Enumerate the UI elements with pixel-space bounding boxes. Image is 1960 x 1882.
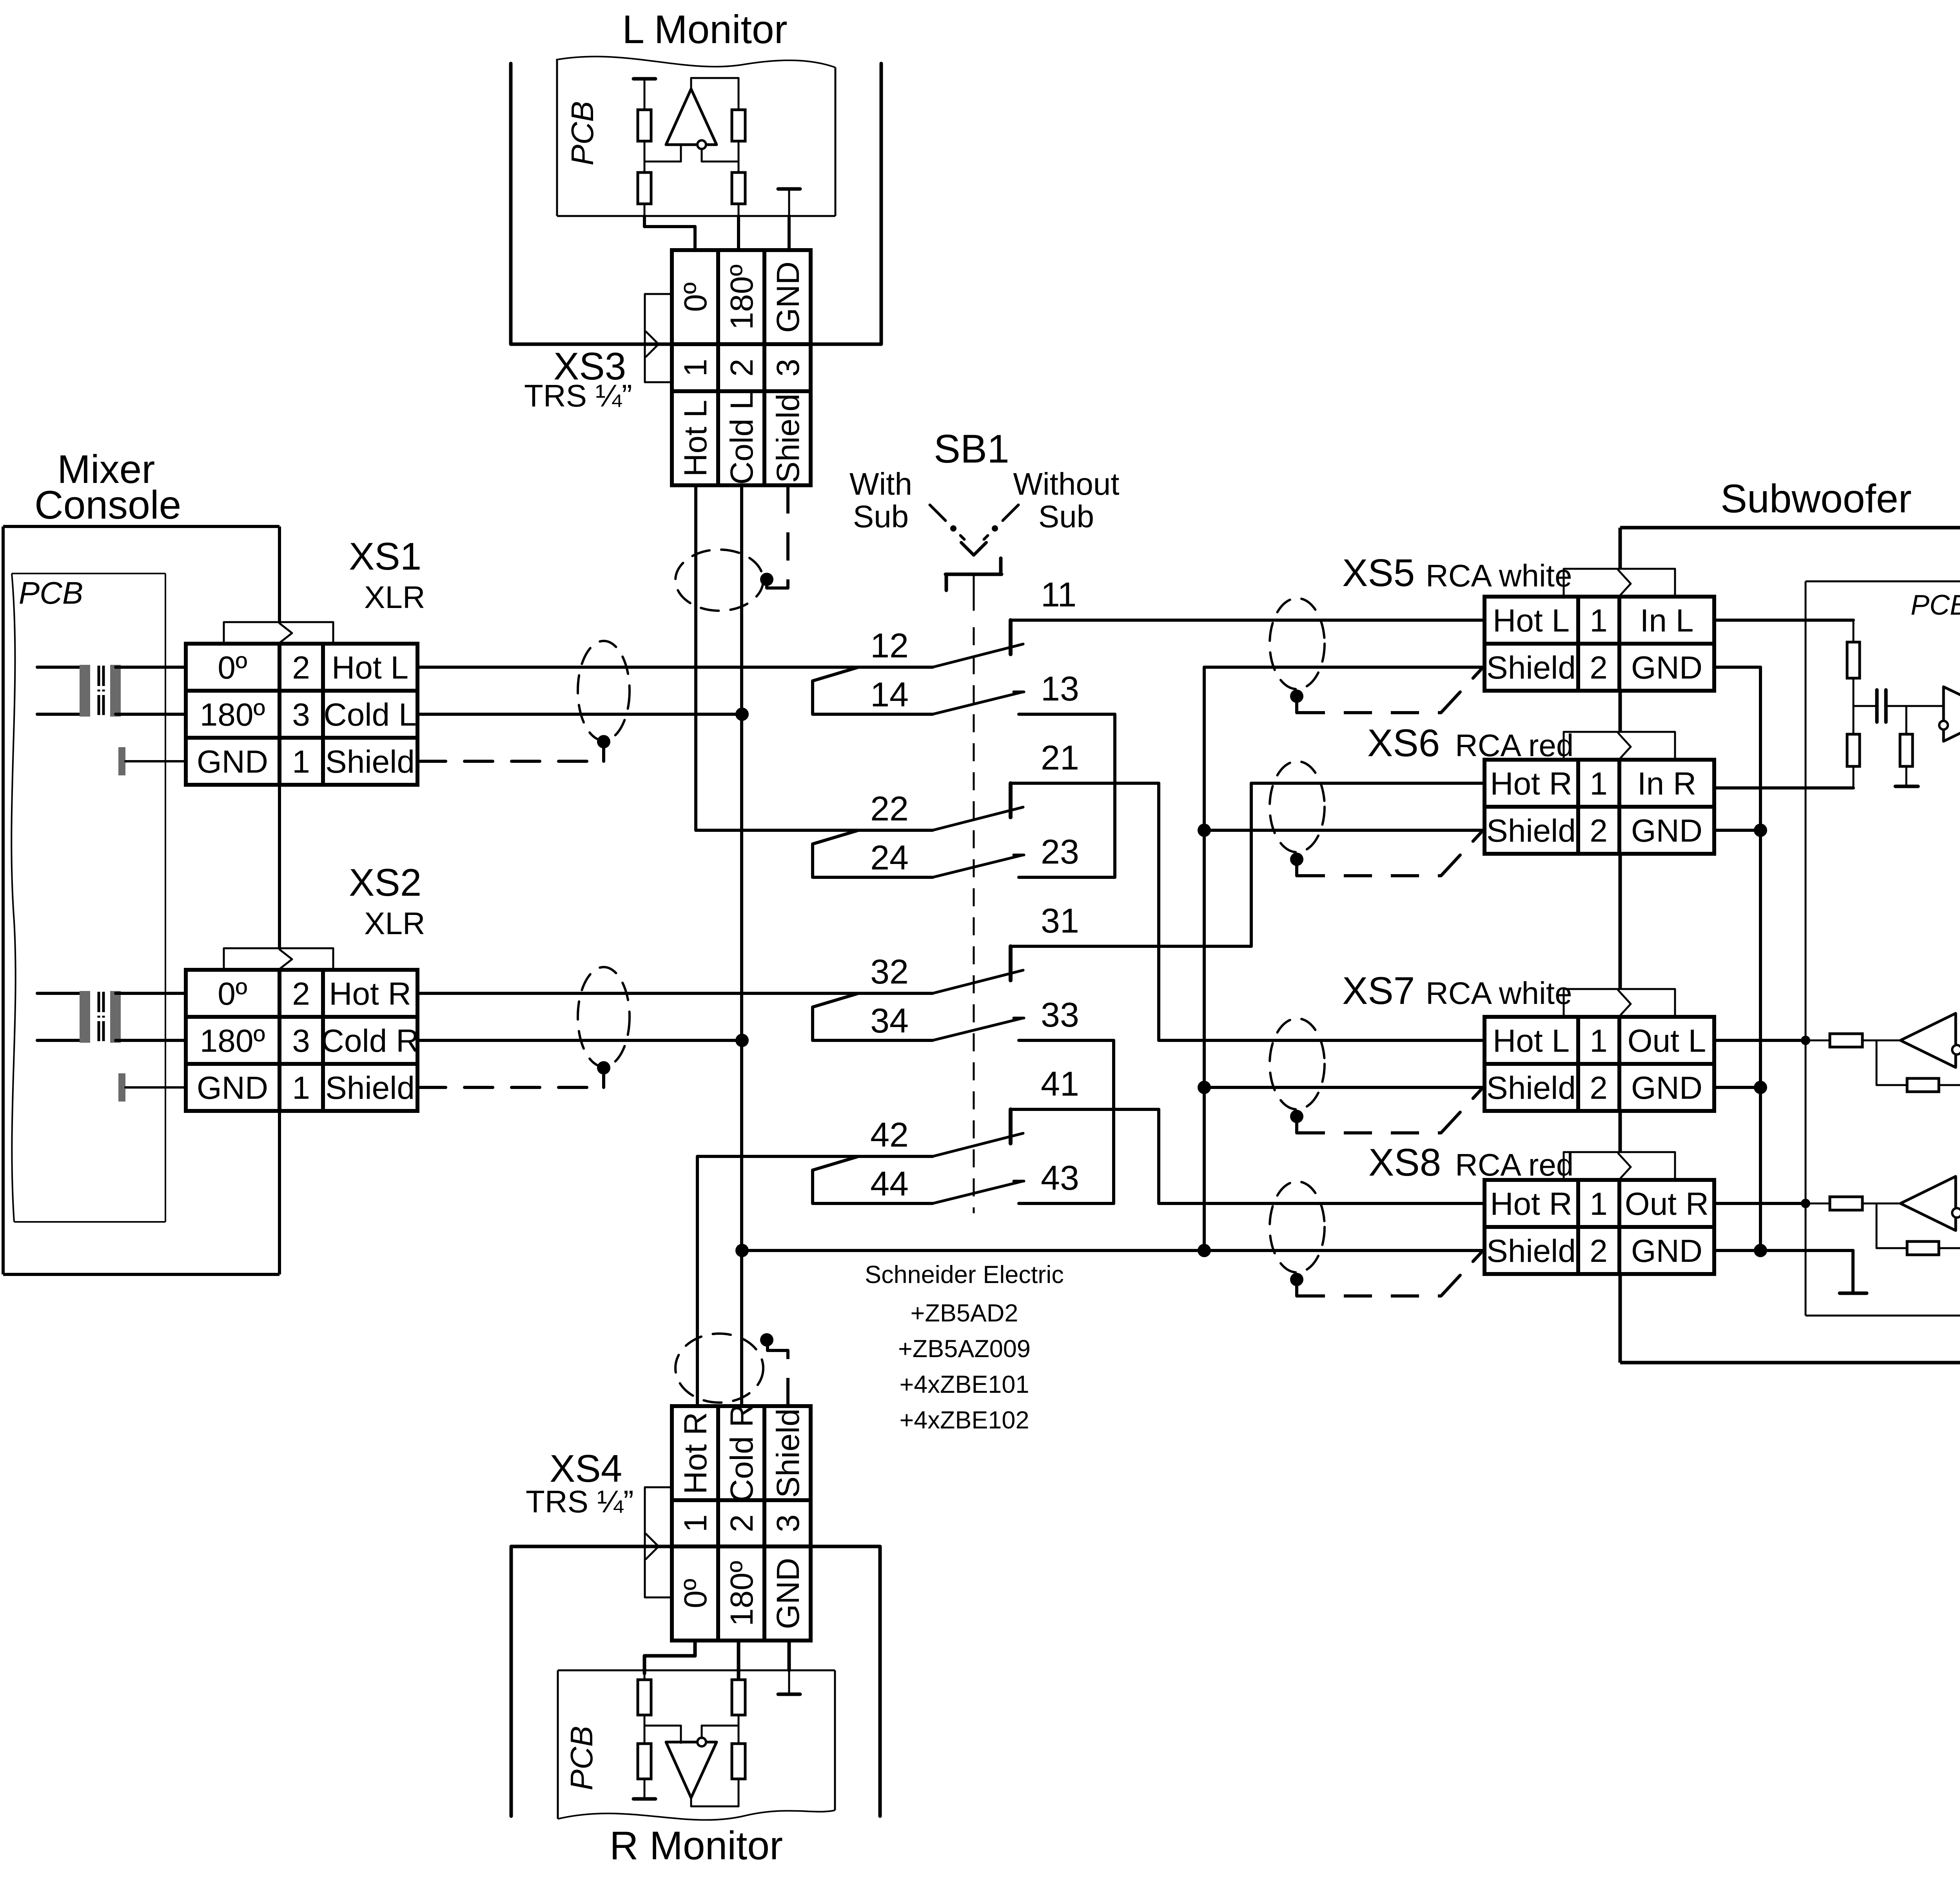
cable shield ellipse XS7 pair (1270, 1018, 1325, 1109)
switch SB1 mechanical linkage dashed (973, 627, 975, 1213)
junction GND bus XS6 (1754, 824, 1767, 837)
wire XS3 hot L down to contact 22 (694, 485, 697, 830)
svg-text:TRS ¼”: TRS ¼” (526, 1484, 634, 1519)
wire GND bus vertical x4491 (1759, 667, 1762, 1250)
svg-text:Hot L: Hot L (1493, 1023, 1570, 1059)
contact 13-14 NO blade (933, 692, 1023, 714)
svg-text:33: 33 (1041, 995, 1079, 1034)
svg-text:1: 1 (678, 359, 713, 377)
svg-text:PCB: PCB (1911, 590, 1960, 621)
svg-text:14: 14 (870, 675, 909, 714)
cable bracket XS4 (644, 1487, 646, 1597)
ground symbol sub input (1895, 785, 1918, 788)
svg-text:13: 13 (1041, 669, 1079, 708)
node L monitor input tap (644, 161, 681, 163)
connector XS2 body (186, 970, 417, 1111)
wire contact 21 to XS7 hot L (1011, 782, 1159, 785)
svg-text:2: 2 (1590, 650, 1608, 686)
wire contact 11 to XS5 hot L (1011, 619, 1483, 622)
dashed shield XS2 (417, 1086, 604, 1089)
resistor R-R2 (644, 1744, 646, 1797)
junction cold bus / XS2 cold (735, 1034, 749, 1047)
wire XS5 shield (1204, 666, 1485, 669)
wire In L (1714, 619, 1853, 622)
junction PCB gnd / Out L (1801, 1036, 1810, 1045)
svg-text:Shield: Shield (770, 394, 806, 483)
contact 31 fixed terminal (1009, 946, 1013, 980)
wire XS3 pin connections to PCB (643, 216, 646, 227)
svg-text:XLR: XLR (364, 580, 425, 615)
resistor R-L1 (644, 110, 646, 172)
contact 23-24 NO blade (933, 855, 1023, 877)
cable bracket XS2 (224, 947, 333, 949)
PCB outline L monitor (557, 215, 835, 217)
ground stub R monitor GND pin (778, 1693, 800, 1696)
svg-text:Cold R: Cold R (724, 1404, 760, 1503)
switch SB1 actuator arrow (961, 543, 986, 555)
svg-text:XS5: XS5 (1342, 551, 1415, 594)
svg-text:3: 3 (292, 697, 310, 733)
svg-text:Shield: Shield (325, 744, 415, 780)
svg-text:1: 1 (1590, 1023, 1608, 1059)
svg-text:Shield: Shield (1486, 1070, 1576, 1106)
svg-text:180º: 180º (200, 697, 265, 733)
PCB outline mixer console (12, 573, 165, 574)
svg-text:In L: In L (1640, 603, 1694, 639)
connector XS8 body (1485, 1180, 1714, 1274)
svg-text:Out R: Out R (1625, 1186, 1709, 1222)
cable bracket XS7 (1564, 988, 1675, 990)
resistor R-outL series (1830, 1034, 1862, 1047)
junction shield drain XS6 (1290, 853, 1303, 866)
cable bracket XS3 (644, 294, 646, 382)
svg-text:1: 1 (1590, 766, 1608, 802)
op-amp U-out-L (1900, 1013, 1956, 1067)
svg-text:0º: 0º (218, 650, 247, 686)
svg-text:Console: Console (34, 483, 181, 527)
cable bracket XS6 (1564, 731, 1675, 733)
cable shield ellipse XS2 pair (578, 967, 630, 1067)
svg-text:GND: GND (1631, 1233, 1702, 1269)
svg-text:RCA red: RCA red (1455, 728, 1573, 763)
svg-text:GND: GND (197, 1070, 268, 1106)
svg-text:2: 2 (724, 1514, 760, 1532)
svg-text:22: 22 (870, 789, 909, 828)
svg-text:XLR: XLR (364, 906, 425, 941)
resistor R-R4 (738, 1680, 740, 1715)
svg-text:Hot L: Hot L (332, 650, 408, 686)
contact block 3 input fork (813, 993, 933, 1040)
svg-text:Sub: Sub (853, 499, 909, 534)
summing chain vertical (1853, 620, 1855, 788)
dashed shield XS1 (417, 760, 604, 763)
transformer T2 (XS2 channel) primary stubs (37, 992, 85, 995)
junction shield drain XS3 (760, 573, 773, 586)
svg-text:42: 42 (870, 1115, 909, 1154)
svg-text:0º: 0º (218, 976, 247, 1012)
contact 33-34 NO blade (933, 1018, 1023, 1040)
svg-text:+ZB5AZ009: +ZB5AZ009 (898, 1335, 1031, 1363)
svg-text:2: 2 (1590, 1233, 1608, 1269)
svg-text:34: 34 (870, 1001, 909, 1040)
capacitor C1 (1875, 690, 1879, 722)
wire XS6 shield (1204, 829, 1485, 832)
contact block 4 input fork (813, 1156, 933, 1203)
svg-text:1: 1 (292, 744, 310, 780)
resistor R-L4 (738, 172, 740, 216)
junction shield drain XS1 (597, 735, 610, 748)
svg-text:2: 2 (724, 359, 760, 377)
wire XS7 shield (1204, 1086, 1485, 1089)
svg-text:180º: 180º (724, 1561, 760, 1626)
cable shield ellipse XS1 pair (578, 641, 630, 740)
wire XS8 GND to PCB ground (1714, 1249, 1853, 1252)
svg-text:GND: GND (1631, 650, 1702, 686)
wire contact 13 to contact 23 (1113, 714, 1116, 877)
resistor R-L3 (732, 110, 745, 141)
svg-text:2: 2 (1590, 813, 1608, 849)
contact 21 fixed terminal (1009, 783, 1013, 817)
cable bracket XS8 (1564, 1151, 1675, 1153)
junction shield drain XS4 (760, 1333, 773, 1347)
transformer T1 (XS1 channel) core (98, 666, 100, 715)
svg-text:32: 32 (870, 952, 909, 991)
resistor R-sub3 to ground (1906, 706, 1907, 734)
chassis ground bar T1 (XS1 channel) (118, 747, 125, 775)
junction shield drain XS7 (1290, 1110, 1303, 1123)
svg-text:1: 1 (1590, 603, 1608, 639)
connector XS1 body (186, 644, 417, 785)
svg-text:1: 1 (1590, 1186, 1608, 1222)
svg-text:Hot R: Hot R (329, 976, 411, 1012)
dashed shield XS3 (786, 485, 789, 588)
svg-text:PCB: PCB (564, 1726, 599, 1791)
PCB outline R monitor (558, 1670, 835, 1671)
svg-text:Cold L: Cold L (724, 392, 760, 485)
contact 11-12 NC blade (933, 644, 1023, 667)
svg-text:Hot R: Hot R (1490, 1186, 1572, 1222)
resistor R-sub2 (1847, 734, 1860, 766)
feedback loop out L (1876, 1040, 1878, 1085)
cable shield ellipse XS4 pair (675, 1334, 763, 1403)
transformer T1 (XS1 channel) primary stubs (37, 666, 85, 669)
svg-text:L Monitor: L Monitor (622, 7, 787, 52)
enclosure L Monitor (509, 64, 513, 344)
contact block 2 input fork (813, 830, 933, 877)
svg-text:SB1: SB1 (934, 426, 1009, 471)
svg-text:Schneider Electric: Schneider Electric (865, 1261, 1064, 1289)
enclosure Mixer Console (3, 525, 279, 528)
svg-text:XS2: XS2 (349, 861, 421, 904)
svg-text:Without: Without (1013, 466, 1119, 501)
junction shield bus XS6 (1198, 824, 1211, 837)
svg-text:180º: 180º (200, 1023, 265, 1059)
svg-text:Hot R: Hot R (1490, 766, 1572, 802)
resistor R-outR series (1830, 1197, 1862, 1210)
switch SB1 selector dash-dot right (1003, 505, 1018, 521)
wire Out L (1714, 1039, 1808, 1042)
svg-text:Shield: Shield (325, 1070, 415, 1106)
switch SB1 selector dash-dot left (930, 505, 946, 521)
svg-text:Hot L: Hot L (678, 400, 713, 477)
wire contact 41 to XS8 hot R (1011, 1108, 1159, 1111)
wire XS1 hot L to contact 12 (417, 666, 933, 669)
svg-text:PCB: PCB (19, 575, 83, 610)
svg-text:1: 1 (292, 1070, 310, 1106)
svg-text:GND: GND (1631, 813, 1702, 849)
wire contact 13 terminal (1019, 713, 1115, 716)
cable shield ellipse XS3 pair (675, 550, 763, 611)
svg-text:GND: GND (770, 261, 806, 333)
svg-text:PCB: PCB (565, 101, 600, 166)
dashed shield XS4 (786, 1350, 789, 1406)
svg-text:TRS ¼”: TRS ¼” (524, 378, 632, 413)
enclosure R Monitor (510, 1546, 513, 1816)
node R monitor input tap (644, 1725, 681, 1727)
op-amp U-Rmon (666, 1742, 717, 1798)
feedback loop out R (1876, 1203, 1878, 1248)
connector XS5 body (1485, 597, 1714, 691)
svg-text:XS1: XS1 (349, 535, 421, 578)
chassis ground bar T2 (XS2 channel) (118, 1073, 125, 1102)
cable shield ellipse XS5 pair (1270, 598, 1325, 689)
switch SB1 button head (946, 573, 1002, 576)
svg-text:180º: 180º (724, 265, 760, 330)
wire T1 (XS1 channel) secondary to connector (116, 666, 186, 669)
enclosure Subwoofer (1620, 526, 1960, 530)
connector XS4 body (672, 1406, 811, 1641)
transformer T2 (XS2 channel) windings (80, 991, 90, 1043)
svg-text:0º: 0º (678, 1579, 713, 1608)
svg-text:3: 3 (292, 1023, 310, 1059)
feedback loop L monitor (690, 78, 692, 89)
svg-text:Shield: Shield (1486, 1233, 1576, 1269)
wire In R (1714, 786, 1853, 789)
svg-text:Out L: Out L (1628, 1023, 1706, 1059)
cable bracket XS5 (1564, 568, 1675, 570)
junction shield bus XS8 (1198, 1244, 1211, 1257)
svg-text:+ZB5AD2: +ZB5AD2 (911, 1299, 1018, 1327)
svg-text:Cold L: Cold L (323, 697, 416, 733)
wire XS4 pin connections to PCB (693, 1639, 697, 1656)
resistor R-R1 (644, 1673, 646, 1744)
transformer T1 (XS1 channel) windings (80, 665, 90, 717)
resistor R-R3 (732, 1744, 745, 1779)
dashed shield drain XS7 (1295, 1120, 1298, 1133)
contact block 1 input fork (813, 667, 933, 714)
svg-text:41: 41 (1041, 1064, 1079, 1103)
contact 41-42 NC blade (933, 1133, 1023, 1156)
svg-text:R Monitor: R Monitor (610, 1823, 783, 1868)
wire XS2 cold R to cold bus (417, 1039, 742, 1042)
svg-text:GND: GND (770, 1558, 806, 1629)
svg-text:GND: GND (197, 744, 268, 780)
svg-text:XS8: XS8 (1368, 1141, 1441, 1184)
svg-text:12: 12 (870, 626, 909, 665)
svg-text:3: 3 (770, 1514, 806, 1532)
dashed shield drain XS5 (1295, 700, 1298, 713)
svg-text:XS4: XS4 (550, 1447, 622, 1490)
svg-text:RCA white: RCA white (1426, 976, 1572, 1011)
svg-text:With: With (849, 466, 912, 501)
svg-text:Shield: Shield (1486, 813, 1576, 849)
wire XS1 cold L to cold bus (417, 713, 742, 716)
wire shield-GND bus to XS8 shield (742, 1249, 1483, 1252)
svg-text:21: 21 (1041, 738, 1079, 777)
wire contact 31 to XS6 hot R (1011, 945, 1251, 948)
svg-text:11: 11 (1041, 575, 1076, 614)
junction PCB gnd / Out R (1801, 1199, 1810, 1208)
svg-text:43: 43 (1041, 1158, 1079, 1197)
junction shield drain XS5 (1290, 690, 1303, 703)
resistor R-L2 (644, 172, 646, 216)
svg-text:Subwoofer: Subwoofer (1720, 476, 1912, 521)
svg-text:2: 2 (292, 976, 310, 1012)
svg-text:3: 3 (770, 359, 806, 377)
ground symbol subwoofer power GND (1840, 1292, 1867, 1295)
svg-text:In R: In R (1637, 766, 1696, 802)
resistor R-fbR (1907, 1241, 1939, 1255)
svg-text:+4xZBE102: +4xZBE102 (900, 1407, 1029, 1434)
junction cold bus / XS1 cold (735, 708, 749, 721)
contact 31-32 NC blade (933, 970, 1023, 993)
contact 43-44 NO blade (933, 1181, 1023, 1203)
svg-text:+4xZBE101: +4xZBE101 (900, 1371, 1029, 1398)
resistor R-sub1 (1847, 642, 1860, 678)
junction shield bus XS7 (1198, 1081, 1211, 1094)
connector XS7 body (1485, 1017, 1714, 1111)
resistor R-fbL (1907, 1078, 1939, 1092)
op-amp U-out-R (1900, 1176, 1956, 1230)
wire XS5 GND (1714, 666, 1760, 669)
svg-text:XS6: XS6 (1367, 721, 1440, 764)
cable shield ellipse XS8 pair (1270, 1181, 1325, 1272)
op-amp U-sub-in (1944, 687, 1960, 741)
power rail stub L monitor (633, 77, 655, 81)
svg-text:31: 31 (1041, 901, 1079, 940)
svg-text:RCA red: RCA red (1455, 1147, 1573, 1182)
wire Out R (1714, 1202, 1808, 1205)
wire shield bus vertical x3072 (1203, 667, 1206, 1250)
svg-text:Sub: Sub (1038, 499, 1094, 534)
svg-text:44: 44 (870, 1164, 909, 1203)
svg-text:Shield: Shield (1486, 650, 1576, 686)
transformer T2 (XS2 channel) core (98, 992, 100, 1041)
ground stub L monitor GND pin (778, 187, 800, 191)
svg-text:2: 2 (292, 650, 310, 686)
svg-text:Cold R: Cold R (321, 1023, 419, 1059)
junction GND bus XS7 (1754, 1081, 1767, 1094)
contact 41 fixed terminal (1009, 1109, 1013, 1143)
cable shield ellipse XS6 pair (1270, 761, 1325, 852)
svg-text:2: 2 (1590, 1070, 1608, 1106)
svg-text:24: 24 (870, 838, 909, 877)
svg-text:Shield: Shield (770, 1408, 806, 1498)
wire XS6 GND (1714, 829, 1760, 832)
svg-text:Hot L: Hot L (1493, 603, 1570, 639)
cable bracket XS1 (224, 621, 333, 623)
svg-text:23: 23 (1041, 832, 1079, 871)
wire contact 33 to contact 43 (1019, 1039, 1114, 1042)
junction GND bus XS8 (1754, 1244, 1767, 1257)
PCB outline subwoofer (1806, 581, 1960, 583)
junction shield drain XS2 (597, 1061, 610, 1074)
svg-text:1: 1 (678, 1514, 713, 1532)
svg-text:0º: 0º (678, 282, 713, 312)
feedback loop R monitor (690, 1798, 692, 1806)
wire XS7 GND (1714, 1086, 1760, 1089)
junction shield drain XS8 (1290, 1273, 1303, 1286)
ground stub R monitor (633, 1797, 655, 1801)
svg-text:XS7: XS7 (1342, 969, 1415, 1012)
svg-text:RCA white: RCA white (1426, 558, 1572, 593)
wire T2 (XS2 channel) secondary to connector (116, 992, 186, 995)
contact 11 fixed terminal (1009, 620, 1013, 654)
svg-text:GND: GND (1631, 1070, 1702, 1106)
dashed shield drain XS8 (1295, 1283, 1298, 1296)
connector XS3 body (672, 250, 811, 485)
op-amp U-Lmon (666, 89, 717, 145)
svg-text:Hot R: Hot R (678, 1412, 713, 1494)
dashed shield drain XS6 (1295, 863, 1298, 876)
junction cold bus / shield bus (735, 1244, 749, 1257)
connector XS6 body (1485, 760, 1714, 854)
wire summing node to cap (1853, 705, 1876, 707)
wire XS4 hot R up to contact 42 (696, 1156, 699, 1406)
wire cold bus XS3 pin2 to XS4 pin2 (740, 485, 743, 1406)
wire XS2 hot R to contact 32 (417, 992, 933, 995)
wire cap to op-amp (1887, 705, 1944, 707)
contact 21-22 NC blade (933, 807, 1023, 830)
